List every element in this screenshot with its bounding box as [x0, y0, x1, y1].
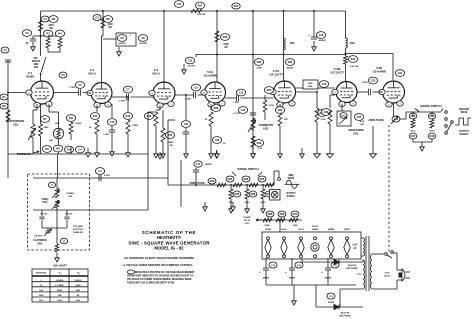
svg-text:LAMP: LAMP [312, 228, 319, 231]
svg-text:R31: R31 [234, 4, 239, 8]
svg-text:9 MEG: 9 MEG [75, 280, 82, 282]
svg-text:ADJ.: ADJ. [42, 201, 48, 204]
svg-text:R8: R8 [106, 17, 110, 21]
svg-text:10 K: 10 K [39, 300, 44, 302]
resistor R43 [330, 94, 335, 96]
tube V4B 1/2 6AW8 [383, 81, 405, 103]
svg-text:4700: 4700 [261, 201, 266, 204]
wire V1 plate riser [40, 11, 42, 36]
svg-text:RANGE SWITCH: RANGE SWITCH [420, 104, 441, 108]
capacitor C16 [238, 107, 247, 114]
resistor R48 561.5 [430, 120, 434, 129]
ground mid 1 [301, 148, 303, 154]
svg-text:C25: C25 [357, 115, 362, 119]
svg-text:1W: 1W [49, 27, 53, 30]
svg-text:C5: C5 [25, 31, 29, 35]
resistor R38 4.7K [254, 140, 263, 147]
svg-text:40UFD: 40UFD [289, 277, 296, 280]
svg-text:1/2 6AW8: 1/2 6AW8 [203, 74, 217, 78]
capacitor C30B 40UFD [291, 258, 293, 268]
capacitor C9 V3-V4A coupling [175, 94, 193, 96]
wire attenuator rail [168, 184, 274, 186]
tube V4A 1/2 6AW8 [205, 82, 226, 103]
inductor RFC2 [346, 38, 348, 48]
svg-text:1000: 1000 [39, 295, 45, 297]
capacitor C25 trimmer [341, 104, 343, 111]
capacitor C10 [111, 104, 113, 118]
resistor R27 2.2K 1W [191, 9, 202, 13]
resistor R9 [53, 145, 62, 152]
resistor R11 1 MEG [70, 146, 72, 154]
svg-text:OUTPUT: OUTPUT [286, 193, 296, 195]
switch S1B contacts [445, 111, 448, 114]
resistor R45 [409, 113, 417, 119]
wire V3 plate riser [163, 11, 165, 82]
capacitor C1B 40 UUF [66, 210, 68, 216]
ground C10 [183, 64, 185, 70]
svg-text:100K: 100K [293, 225, 298, 227]
svg-text:6.3V: 6.3V [353, 245, 358, 247]
wire V5B plate lead [345, 64, 347, 81]
svg-text:R16: R16 [147, 114, 152, 118]
resistor R22 series [233, 183, 242, 187]
svg-text:R6: R6 [45, 147, 49, 151]
svg-text:.05 UFD: .05 UFD [139, 43, 148, 45]
resistor R28 [210, 106, 212, 111]
ground mid 233 [232, 202, 234, 207]
ground R39 tall [316, 142, 318, 154]
svg-text:R68: R68 [268, 212, 273, 216]
svg-text:C24: C24 [398, 71, 403, 75]
capacitor C8 .05 UFD [138, 35, 147, 42]
svg-text:R2: R2 [52, 17, 56, 21]
svg-text:RFC: RFC [350, 42, 355, 45]
wire screen rail [217, 54, 347, 56]
resistor R30 100K 1W [215, 31, 219, 42]
svg-text:R28: R28 [214, 106, 219, 110]
svg-text:4.7K: 4.7K [258, 147, 263, 150]
capacitor C3 screen [59, 72, 67, 78]
wire attenuator to output contact [273, 171, 275, 185]
svg-text:★ VOLTAGE VARIES DEPENDS ON SY: ★ VOLTAGE VARIES DEPENDS ON SYMMETRY CON… [123, 263, 193, 267]
svg-text:HEATHKIT®: HEATHKIT® [157, 235, 182, 240]
ground C19 [313, 41, 315, 47]
node input [7, 92, 9, 94]
svg-text:LDR: LDR [55, 123, 60, 125]
resistor R33 8200 [285, 59, 294, 66]
svg-text:CAP: CAP [68, 195, 73, 198]
wire V4B cathode to amplitude pot [393, 103, 395, 119]
wire vert from V3 ground bus [180, 160, 182, 207]
svg-text:R33: R33 [288, 60, 293, 64]
svg-text:1W: 1W [169, 145, 172, 147]
potentiometer C3B [55, 200, 59, 208]
inductor RFC1 [284, 38, 286, 50]
svg-text:1W: 1W [224, 47, 228, 49]
svg-text:+: + [259, 270, 261, 274]
tube V3 6CL6 [153, 82, 175, 104]
svg-text:R12: R12 [93, 114, 98, 118]
capacitor C4 [75, 146, 84, 153]
resistor R48b [428, 133, 436, 139]
ground R13 [127, 148, 129, 153]
svg-text:SHIELDS: SHIELDS [73, 232, 83, 234]
potentiometer R37 SYMMETRY ADJ [251, 118, 255, 130]
resistor R46 [428, 113, 436, 119]
wire bias divider [256, 219, 262, 221]
ground V2 cathode [96, 148, 98, 153]
svg-text:R47: R47 [411, 134, 416, 138]
resistor R13 1 MEG [127, 97, 129, 112]
svg-text:INDICATES A POSITIVE DC VOLTAG: INDICATES A POSITIVE DC VOLTAGE MEASUREM… [135, 271, 195, 274]
svg-text:2: 2 [79, 273, 80, 275]
wire bottom horizontal to dashed box [90, 209, 149, 211]
diode D1 silicon rectifier [302, 261, 334, 263]
svg-text:3.3K 1W: 3.3K 1W [350, 66, 359, 68]
svg-text:ADJ.: ADJ. [353, 132, 359, 136]
svg-text:.01 UFD: .01 UFD [187, 66, 195, 68]
svg-text:C6: C6 [120, 36, 124, 40]
capacitor C5 [33, 35, 41, 37]
ground C6 [118, 47, 120, 52]
svg-text:RECTIFIER: RECTIFIER [340, 316, 351, 318]
svg-text:C23: C23 [371, 79, 376, 83]
resistor R2 2200 1W [39, 20, 43, 31]
svg-text:VOLTAGES AT POWER TRANSFORMER.: VOLTAGES AT POWER TRANSFORMER. READINGS … [127, 278, 192, 281]
wire to V4B plate [346, 53, 394, 55]
svg-text:40 UUF: 40 UUF [66, 213, 74, 216]
capacitor C7feed 4 UUF [95, 168, 104, 175]
svg-text:1500: 1500 [57, 300, 63, 302]
svg-text:1 MEG: 1 MEG [132, 125, 139, 127]
capacitor C10 .01 UFD [185, 57, 194, 64]
heater string box [262, 232, 361, 259]
svg-text:R35: R35 [267, 88, 272, 92]
switch link dashed [388, 125, 390, 252]
svg-text:10 MEG: 10 MEG [55, 280, 63, 282]
svg-text:R3: R3 [46, 32, 50, 36]
svg-text:R30: R30 [223, 35, 228, 39]
svg-text:R69: R69 [280, 212, 285, 216]
svg-text:SIGNAL: SIGNAL [459, 133, 469, 136]
svg-text:FROM POINT INDICATED TO CHASSI: FROM POINT INDICATED TO CHASSIS GROUND E… [127, 275, 194, 278]
svg-text:C18: C18 [322, 82, 327, 86]
svg-text:R1: R1 [2, 95, 6, 99]
svg-text:1K: 1K [89, 127, 92, 129]
resistor R1 [0, 94, 8, 100]
capacitor C11 [185, 95, 187, 120]
capacitor C22 [212, 137, 221, 144]
wire box top net [56, 178, 58, 188]
svg-text:.1 UFD: .1 UFD [103, 134, 110, 136]
ground V3 cathode [155, 150, 157, 154]
svg-text:OF V3: OF V3 [244, 220, 251, 222]
svg-text:R13: R13 [126, 114, 131, 118]
capacitor C13 on bus [232, 3, 240, 9]
svg-text:R20: R20 [210, 179, 215, 183]
wire V4A plate riser [216, 11, 218, 82]
svg-text:4.7M: 4.7M [269, 104, 274, 107]
svg-text:40UFD: 40UFD [319, 39, 326, 42]
svg-text:40 UUF: 40 UUF [41, 213, 49, 216]
svg-text:+: + [308, 33, 310, 37]
wire feedback loop vertical [147, 112, 149, 210]
node junction V1 plate net [40, 35, 42, 37]
resistor R12 [96, 106, 98, 113]
wire symmetry branch riser [252, 11, 254, 150]
wire input left rail [7, 60, 9, 154]
svg-text:AC: AC [353, 247, 357, 250]
svg-text:WAVE: WAVE [461, 111, 468, 114]
svg-text:C17: C17 [196, 162, 201, 166]
svg-text:DIAL SHAFT: DIAL SHAFT [53, 265, 67, 268]
svg-text:80UFD: 80UFD [119, 43, 126, 45]
svg-text:C6: C6 [95, 16, 99, 20]
svg-text:561.5: 561.5 [429, 131, 435, 133]
wire V1 grid lead [40, 74, 42, 82]
resistor R42 3.3K 1W [345, 48, 347, 56]
AC plug P1 [402, 269, 405, 281]
svg-text:100K: 100K [223, 44, 229, 46]
resistor R23 series [249, 183, 258, 187]
resistor R36 [275, 107, 284, 114]
svg-text:4 UUF: 4 UUF [104, 174, 111, 177]
capacitor C21 on bus [174, 1, 183, 8]
svg-text:RANGE SWITCH: RANGE SWITCH [237, 167, 258, 171]
capacitor C15 V4A-V5A coupling [226, 97, 237, 99]
svg-text:1 MEG: 1 MEG [75, 123, 82, 125]
resistor R26 shunt [246, 185, 248, 189]
svg-text:6CL6: 6CL6 [281, 229, 287, 231]
svg-text:1W: 1W [108, 26, 112, 29]
svg-text:PLATE: PLATE [243, 216, 251, 219]
svg-text:1/2 6AW8: 1/2 6AW8 [372, 70, 386, 74]
svg-text:150K: 150K [57, 290, 63, 292]
wire V2 plate riser [102, 11, 104, 36]
svg-text:ADJ.: ADJ. [13, 122, 19, 126]
wire B+ top bus [41, 10, 346, 12]
svg-text:BOTTOM: BOTTOM [73, 229, 83, 231]
svg-text:1.5 MEG: 1.5 MEG [55, 285, 64, 287]
svg-text:40UFD: 40UFD [263, 277, 270, 280]
wire into box [7, 154, 9, 178]
svg-text:270K: 270K [321, 119, 326, 121]
ground PS [293, 285, 295, 296]
ground flatness [56, 253, 58, 258]
capacitor C19 40UFD [311, 36, 317, 38]
capacitor C1 [1, 47, 9, 53]
svg-text:8200Ω: 8200Ω [287, 68, 294, 70]
resistor R47 561.5 [411, 120, 415, 129]
wire bias into box [279, 220, 281, 232]
svg-text:5-80: 5-80 [360, 121, 365, 123]
svg-text:C21: C21 [177, 2, 182, 6]
ground V1 cathode net [87, 148, 89, 153]
svg-text:FLATNESS: FLATNESS [33, 238, 47, 242]
svg-text:SILICON: SILICON [348, 265, 357, 267]
svg-text:R9: R9 [56, 147, 60, 151]
svg-text:50-60: 50-60 [384, 276, 390, 278]
transformer T1 [365, 236, 367, 291]
capacitor C17 4UFD [194, 161, 202, 167]
potentiometer R44 WAVEFORM ADJ box [337, 111, 351, 126]
svg-text:47K: 47K [284, 118, 288, 121]
wire electrolytic bus [266, 284, 356, 286]
svg-text:600KHZ: 600KHZ [32, 61, 41, 63]
capacitor C2 V1-V2 coupling [54, 92, 79, 94]
svg-text:C4: C4 [78, 148, 82, 152]
svg-text:AMPLITUDE: AMPLITUDE [368, 118, 383, 122]
svg-text:R22: R22 [244, 177, 249, 181]
diode D2 silicon rectifier [316, 306, 334, 308]
svg-text:2UFD: 2UFD [362, 82, 368, 84]
square wave glyph [455, 118, 471, 125]
resistor R39 270K [296, 91, 318, 93]
svg-text:ADJ.: ADJ. [37, 241, 43, 245]
resistor R35 4.7M [264, 95, 266, 100]
svg-text:470K: 470K [257, 67, 262, 70]
wire C19 drop [313, 11, 315, 37]
svg-text:TAKEN WITH AN 11 MEGOHM INPUT: TAKEN WITH AN 11 MEGOHM INPUT VTVM. [127, 282, 175, 285]
svg-text:WAVEFORM: WAVEFORM [348, 128, 363, 132]
svg-text:6800: 6800 [245, 202, 250, 204]
svg-text:1/2 12AT7: 1/2 12AT7 [269, 73, 283, 77]
shield box dashed [28, 174, 90, 250]
svg-text:+: + [321, 270, 323, 274]
svg-text:+27V: +27V [244, 223, 250, 225]
ground coupling net [216, 150, 218, 154]
svg-text:R34: R34 [257, 60, 262, 64]
tube V5B 1/2 12AT7 [336, 82, 357, 103]
svg-text:SINE: SINE [288, 175, 294, 177]
capacitor C2A trimmer 7-20 [47, 228, 49, 231]
svg-text:220K: 220K [265, 225, 270, 227]
svg-text:90K: 90K [76, 290, 80, 292]
resistor R8 2200 1W [101, 17, 105, 28]
svg-text:R7: R7 [43, 117, 47, 121]
ground range ladder [421, 142, 423, 147]
svg-text:C8: C8 [141, 36, 145, 40]
tube V1 6CB6 [31, 81, 54, 104]
resistor R24 series [265, 183, 274, 187]
svg-text:R11: R11 [69, 116, 74, 120]
svg-text:117V: 117V [357, 274, 362, 276]
wire amplitude branch vertical [167, 120, 169, 185]
ground C11 [185, 150, 187, 154]
svg-text:15K: 15K [57, 295, 61, 297]
capacitor C30C 40UFD [327, 258, 329, 268]
resistor R3 [41, 35, 49, 37]
svg-text:C22: C22 [215, 138, 220, 142]
svg-text:R21: R21 [228, 177, 233, 181]
svg-text:20UFD: 20UFD [328, 302, 335, 304]
svg-text:ALL RESISTORS 1/2 WATT UNLESS: ALL RESISTORS 1/2 WATT UNLESS MARKED OTH… [124, 257, 195, 260]
svg-text:12AT7: 12AT7 [344, 228, 351, 231]
ground V5A cathode [279, 150, 281, 154]
svg-text:R25: R25 [235, 192, 240, 196]
svg-text:+4UFD: +4UFD [205, 163, 212, 166]
svg-text:R2: R2 [2, 104, 6, 108]
svg-text:C19: C19 [319, 33, 324, 37]
ground V3 net mid [159, 152, 161, 155]
svg-text:C10: C10 [188, 59, 193, 63]
ground V5B tall [329, 142, 331, 154]
resistor R21 series [217, 183, 226, 187]
svg-text:R48: R48 [430, 134, 435, 138]
svg-text:WAVE: WAVE [288, 177, 295, 180]
svg-text:40Ω: 40Ω [34, 66, 39, 69]
svg-text:R26: R26 [251, 192, 256, 196]
svg-text:#49: #49 [49, 139, 53, 142]
svg-text:C10: C10 [110, 120, 115, 124]
sine wave glyph [285, 183, 300, 185]
resistor R17 5600 1W [162, 110, 164, 128]
svg-text:ADJ.: ADJ. [263, 126, 269, 130]
wire V5A plate riser [283, 11, 285, 81]
tube V5A 1/2 12AT7 [274, 81, 296, 103]
ground V4A cathode [210, 150, 212, 154]
capacitor C1A 40 UUF [41, 210, 43, 216]
svg-text:TUNING: TUNING [66, 193, 74, 195]
svg-text:SILICON: SILICON [341, 313, 350, 315]
lamp LP1 stabilizer [48, 104, 50, 112]
svg-text:7-20 UUF: 7-20 UUF [34, 236, 43, 238]
svg-text:6CB6: 6CB6 [26, 75, 34, 79]
resistor R7 [40, 116, 49, 123]
svg-text:1 UFD: 1 UFD [119, 101, 126, 103]
node V2 ref [60, 238, 67, 244]
svg-text:6AW8: 6AW8 [328, 228, 335, 231]
svg-text:TOP AND: TOP AND [73, 225, 83, 228]
svg-text:C2: C2 [78, 83, 82, 87]
svg-text:6CL6: 6CL6 [152, 72, 160, 76]
svg-text:R36: R36 [278, 108, 283, 112]
resistor R47b [409, 133, 417, 139]
svg-text:PILOT: PILOT [312, 226, 319, 228]
svg-text:+.1 UFD: +.1 UFD [232, 113, 240, 115]
potentiometer C3A FREQ ADJ [48, 182, 55, 188]
tube V2 6CL6 [91, 83, 112, 104]
primary circuit [372, 253, 384, 255]
svg-text:100K: 100K [308, 86, 313, 88]
resistor R20 [208, 178, 216, 184]
svg-text:C9: C9 [194, 86, 198, 90]
resistor R25 shunt [230, 185, 232, 189]
svg-text:+: + [285, 270, 287, 274]
svg-text:C11: C11 [184, 122, 189, 126]
svg-text:MODEL IG - 82: MODEL IG - 82 [154, 246, 184, 251]
svg-text:6CL6: 6CL6 [88, 72, 96, 76]
svg-text:6CL6: 6CL6 [298, 229, 304, 231]
wire bus corner to V5B [345, 11, 347, 38]
resistor R40 box V5A-V5B [296, 87, 336, 89]
svg-text:RFC: RFC [290, 42, 295, 45]
svg-text:1: 1 [61, 273, 62, 275]
svg-text:C15: C15 [239, 91, 244, 95]
output jack J1 [270, 190, 281, 201]
svg-text:2.2K 1W: 2.2K 1W [197, 14, 206, 16]
svg-text:UUF: UUF [360, 124, 365, 126]
svg-text:1/2 12AT7: 1/2 12AT7 [330, 71, 344, 75]
svg-text:1 UFD: 1 UFD [233, 102, 240, 104]
svg-text:C7: C7 [98, 169, 102, 173]
svg-text:40UFD: 40UFD [325, 277, 332, 280]
resistor R68 220K [263, 218, 272, 222]
ground waveform net tall [372, 142, 374, 154]
svg-text:900K: 900K [75, 285, 81, 287]
resistor R flatness [56, 208, 58, 244]
ground mid 217 [216, 151, 218, 154]
